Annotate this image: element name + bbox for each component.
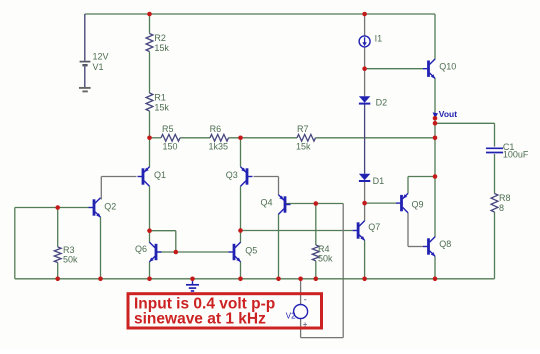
wire input loop to V2 <box>301 204 344 338</box>
label R2 value <box>154 43 169 53</box>
wire Q9 collector to Q8 base <box>408 213 423 247</box>
net label Vout <box>433 109 458 119</box>
wire Q6 base to Q5 base <box>158 251 229 253</box>
wire Q1 collector to mirror <box>149 186 151 231</box>
svg-text:50k: 50k <box>63 254 78 264</box>
wire Q3 base to Q4 emitter <box>254 177 279 196</box>
label R3 value <box>63 254 78 264</box>
svg-text:I1: I1 <box>375 34 383 44</box>
svg-text:50k: 50k <box>318 253 333 263</box>
wire Q7 emitter to rail <box>364 240 366 279</box>
wire R2 to R1 <box>149 52 151 94</box>
wire R4 leads <box>315 204 317 279</box>
battery V1 <box>80 14 91 87</box>
svg-text:1k35: 1k35 <box>209 141 229 151</box>
source V2 <box>294 305 308 319</box>
svg-text:R5: R5 <box>162 124 174 134</box>
wire R1 to node A <box>149 111 151 138</box>
wire top rail to Q10 collector <box>434 14 436 60</box>
label Q2 <box>104 202 116 212</box>
wire Vout to C1 <box>435 123 495 146</box>
diode D1 <box>359 174 370 181</box>
transistor Q4 <box>279 195 291 214</box>
wire R3 leads <box>57 208 59 279</box>
wire Q1 base to Q2 collector <box>101 177 136 200</box>
transistor Q5 <box>229 242 241 262</box>
label Q6 <box>135 244 147 254</box>
resistor R6 <box>210 134 229 141</box>
wire bottom ground rail <box>15 278 495 280</box>
resistor R4 <box>312 245 319 261</box>
capacitor C1 <box>486 148 503 152</box>
svg-text:Q8: Q8 <box>439 239 451 249</box>
svg-text:15k: 15k <box>154 102 169 112</box>
current source I1 <box>359 36 370 47</box>
label D1 <box>373 176 385 186</box>
svg-text:R8: R8 <box>499 193 511 203</box>
svg-text:15k: 15k <box>296 141 311 151</box>
transistor Q6 <box>149 242 161 262</box>
wire horizontal R5-R6-R7 line <box>150 137 436 139</box>
label C1 <box>503 142 515 152</box>
label R1 value <box>154 102 169 112</box>
label V2 plus <box>303 320 308 329</box>
label R3 <box>63 245 75 255</box>
label R6 <box>210 124 222 134</box>
resistor R2 <box>146 34 153 52</box>
label C1 value <box>503 150 529 160</box>
wire node B to Q3 emitter <box>240 138 242 167</box>
ground below V1 <box>79 88 91 92</box>
svg-text:Q9: Q9 <box>412 200 424 210</box>
wire Q8 emitter to rail <box>434 256 436 279</box>
label Q8 <box>439 239 451 249</box>
wire Q4 base to input <box>286 203 343 205</box>
ground symbol center <box>186 279 199 291</box>
label R7 value <box>296 141 311 151</box>
wire node C to D2 <box>364 69 366 97</box>
svg-text:D2: D2 <box>376 98 388 108</box>
wire Q7 collector up <box>364 203 366 221</box>
svg-text:R7: R7 <box>297 124 309 134</box>
label R7 <box>297 124 309 134</box>
svg-text:15k: 15k <box>154 43 169 53</box>
svg-text:Q10: Q10 <box>439 62 456 72</box>
wire D1 to node D <box>364 181 366 203</box>
svg-text:12V: 12V <box>93 51 109 61</box>
wire Q10 emitter to Vout <box>434 78 436 118</box>
label Q9 <box>412 200 424 210</box>
wire I1 to node C <box>364 47 366 69</box>
transistor Q7 <box>353 221 365 241</box>
wire I1 top lead <box>364 14 366 36</box>
label Q3 <box>226 170 238 180</box>
svg-text:Q6: Q6 <box>135 244 147 254</box>
label R8 <box>499 193 511 203</box>
label Q10 <box>439 62 456 72</box>
wire Q4 collector to rail <box>278 214 280 279</box>
svg-text:100uF: 100uF <box>503 150 529 160</box>
label R4 <box>318 244 330 254</box>
label V1 <box>93 62 104 72</box>
wire Q6 collector up <box>149 231 151 243</box>
svg-text:D1: D1 <box>373 176 385 186</box>
wire mirror node to Q7 base <box>241 230 353 232</box>
wire battery to R2 top rail segment <box>149 14 151 34</box>
wire C1 to R8 <box>494 154 496 194</box>
transistor Q9 <box>396 193 408 212</box>
wire Q5 collector <box>240 231 242 243</box>
resistor R3 <box>54 247 61 263</box>
wire top power rail <box>85 13 435 15</box>
transistor Q2 <box>89 198 101 218</box>
transistor Q1 <box>138 167 150 186</box>
resistor R7 <box>297 134 316 141</box>
wire D2 to D1 <box>364 104 366 174</box>
svg-text:Q7: Q7 <box>368 222 380 232</box>
resistor R8 <box>491 194 498 213</box>
wire Q9 emitter to Vout line <box>408 177 435 194</box>
label R6 value <box>209 141 229 151</box>
label V2 minus <box>304 295 307 305</box>
transistor Q10 <box>423 59 435 79</box>
svg-text:Q2: Q2 <box>104 202 116 212</box>
svg-text:R1: R1 <box>154 93 166 103</box>
svg-text:+: + <box>303 320 308 329</box>
annotation box input note <box>128 294 322 328</box>
wire R8 to rail <box>494 212 496 279</box>
label Q5 <box>245 246 257 256</box>
wire node C to Q10 base <box>365 68 423 70</box>
svg-text:150: 150 <box>163 141 178 151</box>
label R1 <box>154 93 166 103</box>
label Q1 <box>154 170 166 180</box>
wire Q6 emitter to rail <box>149 262 151 279</box>
label Q7 <box>368 222 380 232</box>
svg-text:Q4: Q4 <box>261 198 273 208</box>
label R4 value <box>318 253 333 263</box>
transistor Q3 <box>241 167 253 186</box>
diode D2 <box>359 96 370 103</box>
wire Q2 emitter to rail <box>100 217 102 279</box>
svg-text:V2: V2 <box>286 311 296 320</box>
wire Vout node vertical <box>434 118 436 237</box>
svg-text:R2: R2 <box>154 33 166 43</box>
svg-text:-: - <box>304 295 307 305</box>
svg-text:V1: V1 <box>93 62 104 72</box>
wire Q3 collector down <box>240 186 242 230</box>
svg-text:sinewave at 1 kHz: sinewave at 1 kHz <box>134 311 266 328</box>
svg-text:Q3: Q3 <box>226 170 238 180</box>
label Q4 <box>261 198 273 208</box>
wire Q2 base left loop <box>15 208 89 279</box>
svg-text:Q5: Q5 <box>245 246 257 256</box>
svg-text:8: 8 <box>499 203 504 213</box>
svg-text:Q1: Q1 <box>154 170 166 180</box>
wire Q6 collector-base tie <box>150 231 176 252</box>
resistor R1 <box>146 93 153 111</box>
svg-text:Vout: Vout <box>439 109 457 119</box>
label I1 <box>375 34 383 44</box>
transistor Q8 <box>423 237 435 257</box>
label V2 <box>286 311 296 320</box>
label R5 <box>162 124 174 134</box>
label R8 value <box>499 203 504 213</box>
label D2 <box>376 98 388 108</box>
wire node A to Q1 emitter <box>149 138 151 168</box>
label R2 <box>154 33 166 43</box>
svg-text:R6: R6 <box>210 124 222 134</box>
wire node D to Q9 base <box>365 202 396 204</box>
svg-text:R4: R4 <box>318 244 330 254</box>
label R5 value <box>163 141 178 151</box>
resistor R5 <box>161 134 180 141</box>
wire Q5 emitter to rail <box>240 262 242 279</box>
label 12V <box>93 51 109 61</box>
